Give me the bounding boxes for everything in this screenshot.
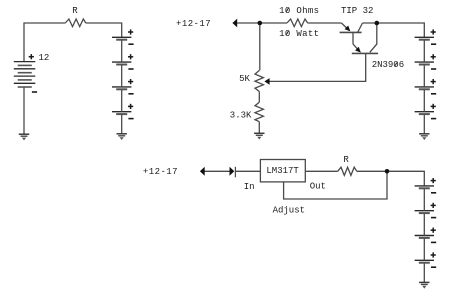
svg-text:3.3K: 3.3K — [230, 110, 252, 120]
svg-text:Out: Out — [310, 182, 326, 192]
svg-text:12: 12 — [39, 53, 50, 63]
svg-text:2N3906: 2N3906 — [372, 60, 404, 70]
svg-text:5K: 5K — [239, 74, 250, 84]
svg-text:R: R — [72, 6, 78, 16]
svg-text:+12-17: +12-17 — [176, 19, 211, 29]
svg-text:+12-17: +12-17 — [143, 167, 178, 177]
svg-text:In: In — [244, 182, 255, 192]
svg-text:TIP 32: TIP 32 — [341, 6, 373, 16]
svg-text:10 Watt: 10 Watt — [279, 29, 319, 39]
svg-text:LM317T: LM317T — [266, 166, 299, 176]
svg-text:R: R — [343, 155, 349, 165]
svg-text:Adjust: Adjust — [273, 205, 305, 215]
svg-text:10 Ohms: 10 Ohms — [279, 6, 319, 16]
